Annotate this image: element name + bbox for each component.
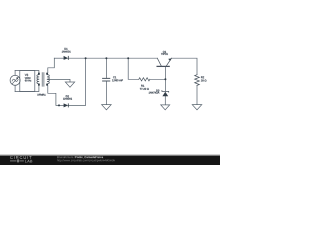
label D1 <box>65 48 68 50</box>
node junction R1 <box>127 57 129 59</box>
ground C1 <box>102 105 112 110</box>
diode D2 cathode bar <box>67 103 70 107</box>
transformer secondary pad bottom <box>46 84 48 86</box>
capacitor C1 plates <box>103 78 110 81</box>
transformer secondary pad top <box>46 73 48 75</box>
ground D3 <box>161 105 170 110</box>
diode D1 cathode bar <box>67 56 70 60</box>
ground R2 <box>192 105 202 110</box>
label D1 value 1N4001 <box>62 51 71 53</box>
wire source bottom to primary <box>15 86 39 92</box>
wire source bottom stub <box>14 85 16 91</box>
footer logo capacitor symbol <box>10 159 24 162</box>
label C1 <box>113 76 116 78</box>
wire zener bottom lead <box>164 96 166 105</box>
wire D2 anode lead <box>59 104 64 106</box>
transformer core <box>42 73 44 87</box>
label vsine <box>25 77 31 79</box>
label R2 value 20 ohm <box>201 80 206 82</box>
footer bar <box>0 156 220 165</box>
label R1 value 77.20 ohm <box>140 88 149 90</box>
diode D1 triangle <box>64 56 69 60</box>
wire source top to primary <box>15 71 39 73</box>
source V3 sine squiggle <box>12 79 18 81</box>
label D3 value 1N4742A <box>149 92 160 94</box>
label R2 <box>201 76 204 78</box>
wire top rail to collector <box>68 57 157 59</box>
wire Q1 base down <box>164 66 166 79</box>
node D2 anode <box>58 104 60 106</box>
diode D2 triangle <box>64 103 69 107</box>
label D3 <box>156 90 159 92</box>
transistor Q1 emitter <box>166 58 172 66</box>
wire C1 top <box>105 58 107 78</box>
wire C1 bottom <box>105 81 107 105</box>
wire R2 bottom lead <box>196 85 198 104</box>
transistor Q1 collector <box>157 58 161 66</box>
footer text BrunaKimura / <box>57 156 75 158</box>
label Q1 <box>163 51 166 53</box>
wire source top stub <box>14 71 16 76</box>
transformer XFMR1 primary winding <box>37 75 39 84</box>
footer logo CIRCUIT <box>10 156 32 162</box>
label Q1 value TIP31 <box>161 53 168 55</box>
wire top rail left segment <box>54 57 63 59</box>
label XFMR1 <box>37 94 45 96</box>
label V3 <box>25 74 28 76</box>
wire secondary bottom to D2 <box>48 86 59 106</box>
wire R1 right lead <box>150 78 166 80</box>
transistor Q1 emitter arrow <box>168 58 171 61</box>
resistor R2 zigzag <box>195 75 200 86</box>
transformer primary pad bottom <box>38 84 40 86</box>
footer text url <box>57 159 115 162</box>
node junction C1 <box>105 57 107 59</box>
source V3 arrowhead <box>16 77 18 79</box>
footer text Fonte_CamadaFisica <box>75 156 103 158</box>
wire zener top lead <box>164 79 166 91</box>
label D2 value 1N4001 <box>63 98 72 100</box>
label R1 <box>141 85 144 87</box>
node base/zener junction <box>164 78 166 80</box>
wire D2 cathode to top rail <box>68 58 85 105</box>
transformer primary pad top <box>38 73 40 75</box>
wire center tap <box>47 79 70 82</box>
zener diode D3 triangle <box>162 92 168 96</box>
transformer secondary winding <box>47 75 49 84</box>
label C1 value 2,083 mF <box>112 79 123 81</box>
source V3 arrow <box>12 77 18 83</box>
wire R1 column <box>128 58 139 79</box>
footer logo LAB <box>25 160 32 163</box>
node junction D2 branch <box>85 57 87 59</box>
ground center tap <box>65 82 74 87</box>
label 60 Hz <box>25 80 31 82</box>
transistor Q1 base bar <box>157 65 169 67</box>
label D2 <box>66 95 69 97</box>
resistor R1 zigzag <box>139 78 150 81</box>
zener diode D3 bar <box>162 91 169 93</box>
wire secondary top to top rail <box>48 58 55 72</box>
wire emitter rail to R2 <box>172 58 198 74</box>
source V3 function generator box <box>20 71 35 92</box>
source V3 circle <box>10 75 20 85</box>
